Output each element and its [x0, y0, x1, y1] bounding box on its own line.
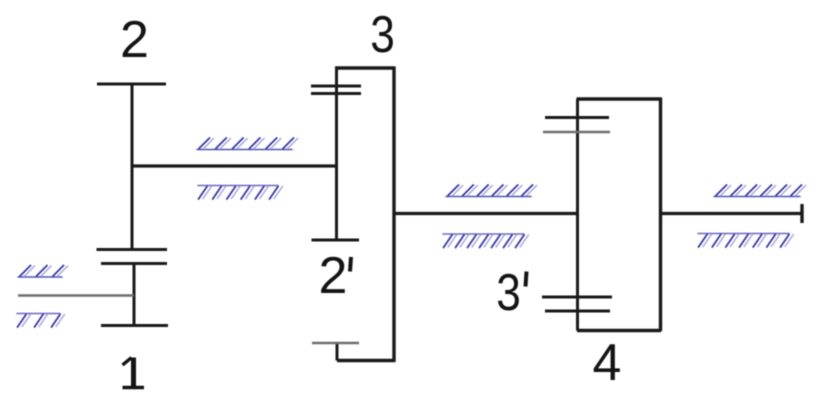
svg-text:4: 4 [593, 334, 622, 392]
svg-text:3: 3 [496, 264, 521, 322]
svg-text:3: 3 [370, 6, 395, 64]
svg-text:2: 2 [319, 247, 348, 305]
svg-text:2: 2 [120, 11, 149, 69]
